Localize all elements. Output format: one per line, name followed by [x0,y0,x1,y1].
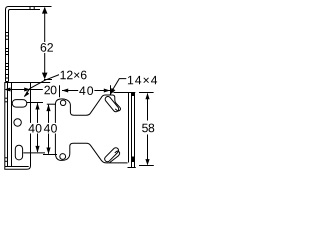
dim 40 top left extension line [59,85,61,97]
dim 40 left top extension [27,102,43,104]
vertical slot in left face [15,145,22,160]
dim 40 top right arrow [104,89,110,93]
left face bend line 2 [11,83,13,167]
rail clip ticks cluster 3 [6,64,9,70]
dim 58 stem [147,94,149,165]
rail end cap bottom [6,81,9,83]
left face inner bottom line [5,166,29,168]
right profile line C [134,93,136,168]
face clip ticks top pair [5,98,8,102]
dim 40 left up arrow [35,103,39,110]
right profile line B [131,93,133,168]
right profile bottom cap [128,167,136,169]
text 14x4 [128,76,157,84]
leader 12x6 arrowhead [24,91,29,97]
plate bottom hole [60,154,66,160]
dim 40 right down arrow [46,148,50,155]
dim 40 top right extension line [110,85,112,94]
circle hole in left face [14,119,21,126]
dim 58 up arrow [145,93,149,99]
text 58 [141,123,155,133]
top diagonal slot 14x4 [104,95,120,113]
text 20 [43,85,56,95]
dim 40 right up arrow [46,104,50,111]
right profile top weld box [132,93,135,97]
text 12x6 [59,69,88,80]
flange clip ticks (top flange) [30,7,34,10]
dim 40 right (middle) stem [48,105,50,154]
rail clip ticks cluster 4 [6,75,9,79]
leader for 12x6 [24,75,59,97]
dim 58 down arrow [145,159,149,165]
text 40 40 middle [28,123,59,134]
left face (front view) outline [5,83,50,170]
left upper rail inner edge [9,10,41,82]
left face bend line 1 [7,83,9,167]
dim 40 right top extension [47,103,56,105]
line from plate to right profile top [114,92,136,94]
face clip ticks bottom pair [5,158,8,162]
text 62 [39,42,54,52]
dim 40 top left arrow [62,89,68,93]
dim 40 left (middle) stem [37,103,39,152]
plate outline lower part [55,104,127,163]
dim 40 right bottom extension [43,154,57,156]
text 40 top [78,85,94,95]
main plate (front view) outline [55,95,120,115]
dim 20 line [6,89,43,91]
dim 40 top line [62,90,110,92]
dim 58 top extension [139,92,154,94]
dim 62 bottom extension line [44,79,52,81]
dim 62 top arrow [42,7,48,14]
leader 14x4 arrowhead [110,88,116,95]
dim 40 left down arrow [35,146,39,153]
horizontal slot 12x6 in left face [12,100,27,108]
left upper rail outer edge [6,7,52,82]
plate bottom-right hook lip [110,151,120,163]
dim 62 bottom arrow [42,73,48,80]
rail clip ticks cluster 1 [6,33,9,40]
bottom diagonal slot 14x4 [104,147,120,163]
right profile bottom weld box [132,157,135,163]
right profile line A [128,93,130,163]
dim 40 left bottom extension [23,152,45,154]
dim 58 bottom extension [139,165,154,167]
rail clip ticks cluster 2 [6,49,9,55]
leader for 14x4 [110,79,126,94]
dim 20 left arrow [4,88,10,92]
dim 62 stem [44,8,46,78]
plate top hole [60,100,65,105]
dim 20 right arrow [24,88,30,92]
